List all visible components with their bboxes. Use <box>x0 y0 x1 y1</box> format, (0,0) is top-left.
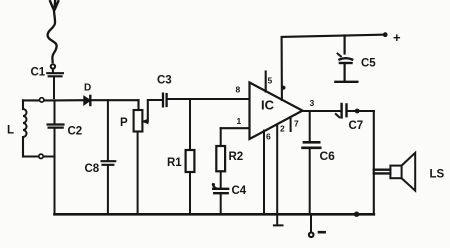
pin 4 wire up to V+ <box>282 35 385 100</box>
svg-text:7: 7 <box>294 119 299 129</box>
connector node at C1 top <box>51 64 55 68</box>
antenna <box>48 1 59 62</box>
svg-text:5: 5 <box>268 76 273 86</box>
capacitor C7 <box>336 104 374 117</box>
speaker LS <box>374 153 415 191</box>
svg-text:2: 2 <box>280 124 285 134</box>
svg-text:6: 6 <box>266 132 271 142</box>
svg-text:C6: C6 <box>320 149 336 163</box>
svg-text:D: D <box>84 83 91 94</box>
bottom rail <box>55 213 374 216</box>
pin 5 stub <box>265 72 267 92</box>
svg-text:R2: R2 <box>229 151 244 163</box>
svg-text:3: 3 <box>310 98 315 108</box>
svg-text:R1: R1 <box>167 157 182 169</box>
svg-text:C1: C1 <box>31 67 46 79</box>
wire: down to speaker and rail <box>373 111 375 214</box>
junction dot after C7 <box>355 109 360 114</box>
svg-text:P: P <box>120 117 128 129</box>
capacitor C6 <box>303 111 321 214</box>
pin 2 line <box>274 125 283 226</box>
resistor R2 <box>216 128 249 188</box>
node: tank top connector circle <box>40 98 44 102</box>
node: tank bottom connector circle <box>39 154 43 158</box>
svg-text:C4: C4 <box>232 185 247 197</box>
svg-text:1: 1 <box>237 116 242 126</box>
svg-text:LS: LS <box>430 169 445 181</box>
svg-text:C3: C3 <box>157 75 172 87</box>
capacitor C1 <box>47 69 63 98</box>
+ terminal <box>383 32 388 37</box>
svg-text:+: + <box>393 30 401 45</box>
diode D <box>84 96 139 105</box>
svg-text:8: 8 <box>236 85 241 95</box>
minus terminal <box>310 214 312 232</box>
junction dot on rail <box>354 212 359 217</box>
capacitor C8 <box>102 100 116 213</box>
svg-text:IC: IC <box>261 98 275 113</box>
capacitor C5 <box>335 36 357 82</box>
potentiometer P <box>134 100 162 214</box>
svg-text:L: L <box>7 125 14 137</box>
svg-text:C2: C2 <box>68 126 83 138</box>
capacitor C3 <box>163 94 249 107</box>
svg-text:C8: C8 <box>85 163 100 175</box>
svg-text:C5: C5 <box>361 58 376 70</box>
inductor L <box>23 100 27 156</box>
wire: top tank wire <box>23 99 84 101</box>
op-amp IC <box>250 83 303 140</box>
pin 6 line <box>263 131 265 214</box>
svg-text:C7: C7 <box>349 120 364 132</box>
pin 7 stub <box>290 117 292 131</box>
capacitor C4 <box>212 183 228 214</box>
wire: bottom tank wire <box>23 155 55 157</box>
capacitor C2 <box>48 100 64 213</box>
wire: output pin 3 <box>303 110 341 112</box>
resistor R1 <box>186 99 195 214</box>
pin 4 dot <box>281 86 285 90</box>
